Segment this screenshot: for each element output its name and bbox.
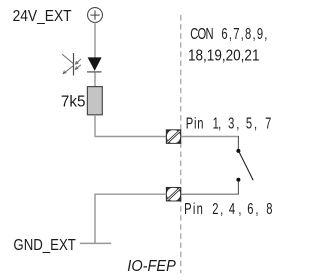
svg-text:IO-FEP: IO-FEP xyxy=(127,257,175,274)
resistor R1 value 7k5 body xyxy=(87,87,102,115)
svg-text:24V_EXT: 24V_EXT xyxy=(13,7,72,24)
phototransistor collector lead xyxy=(62,54,73,64)
wire switch bottom down xyxy=(237,181,239,194)
wire connector pin1 to switch top xyxy=(181,136,239,138)
wire corner to connector pin 1 xyxy=(94,136,166,138)
LED D1 of optocoupler: triangle xyxy=(88,57,102,71)
svg-text:Pin2,4,6,8: Pin2,4,6,8 xyxy=(184,200,272,217)
power terminal +24V circle xyxy=(88,8,103,23)
LED D1 cathode bar xyxy=(87,71,102,73)
wire down to GND stub xyxy=(94,194,96,243)
svg-text:Pin1,3,5,7: Pin1,3,5,7 xyxy=(186,115,272,132)
wire resistor to corner xyxy=(94,115,96,137)
optocoupler phototransistor: base bar xyxy=(73,53,75,76)
IO-FEP boundary dashed line xyxy=(180,15,182,273)
GND_EXT stub wire xyxy=(80,242,111,244)
wire down to switch contact xyxy=(237,136,239,150)
svg-text:CON6,7,8,9,: CON6,7,8,9, xyxy=(190,25,267,42)
svg-text:GND_EXT: GND_EXT xyxy=(13,236,76,253)
wire switch to connector pin 2 xyxy=(181,193,239,195)
wire from +24V terminal to LED anode xyxy=(94,22,96,57)
switch bottom contact dot xyxy=(236,178,240,182)
wire LED cathode to resistor xyxy=(94,73,96,87)
connector CON pins 1,3,5,7 symbol xyxy=(166,130,181,144)
svg-text:18,19,20,21: 18,19,20,21 xyxy=(188,47,260,64)
wire connector pin2 to left xyxy=(94,193,166,195)
svg-text:7k5: 7k5 xyxy=(61,93,86,110)
switch top contact dot xyxy=(236,149,240,153)
switch blade (open) xyxy=(239,152,253,181)
phototransistor emitter lead with arrow xyxy=(63,66,73,74)
light coupling arrow 1 xyxy=(76,59,82,64)
connector CON pins 2,4,6,8 symbol xyxy=(166,187,181,201)
light coupling arrow 2 xyxy=(75,65,81,69)
